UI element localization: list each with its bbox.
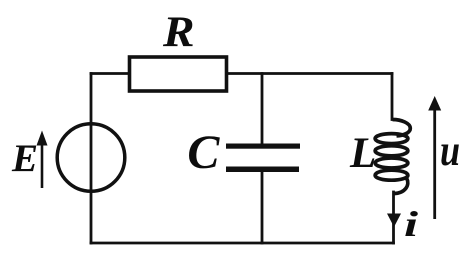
wire bottom: [91, 242, 394, 245]
arrow u (voltage): [428, 96, 441, 219]
label C: [187, 129, 219, 177]
arrow i (current, down): [387, 214, 401, 228]
label E: [12, 139, 38, 178]
capacitor C bottom plate: [226, 167, 299, 173]
resistor R (rectangle): [130, 57, 227, 91]
wire right branch top: [391, 74, 394, 120]
wire right branch bottom: [392, 192, 395, 243]
inductor L (coil): [375, 120, 410, 194]
label i: [404, 206, 418, 242]
voltage source E (circle): [57, 124, 125, 192]
label u: [440, 129, 460, 173]
wire capacitor branch top: [261, 74, 264, 147]
capacitor C top plate: [226, 144, 300, 149]
wire capacitor branch bottom: [261, 169, 264, 243]
arrow E (emf direction): [37, 131, 48, 189]
wire top-left (source to resistor): [91, 72, 129, 75]
label L: [350, 132, 376, 175]
wire left vertical (through source): [90, 74, 93, 244]
label R: [163, 11, 195, 54]
wire top-right (resistor to right branch): [227, 72, 392, 75]
